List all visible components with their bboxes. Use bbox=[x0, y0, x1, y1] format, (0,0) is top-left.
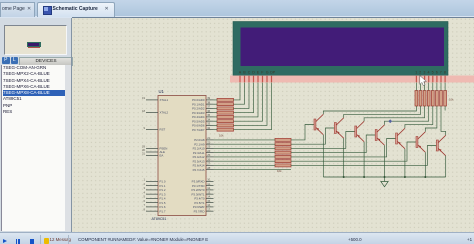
wire collector common bus bbox=[323, 176, 445, 178]
svg-text:17: 17 bbox=[207, 207, 210, 211]
transistor Q1 PNP bbox=[314, 114, 323, 134]
resistor R13 (P2.4 base resistor) bbox=[275, 155, 291, 158]
wire P2.0 to R9 to Q1 base bbox=[214, 125, 315, 140]
status bar bbox=[0, 232, 474, 244]
wire Q6 emitter to R21 (digit 6) bbox=[425, 106, 437, 132]
wire P0.6 to R7 to display segment G bbox=[214, 83, 268, 126]
wire Q7 emitter to R22 (digit 7) bbox=[441, 106, 446, 135]
L button bbox=[11, 57, 19, 64]
svg-text:24: 24 bbox=[207, 149, 210, 153]
svg-text:27: 27 bbox=[207, 162, 210, 166]
resistor R5 (P0.4 segment line) bbox=[217, 115, 234, 118]
wire display digit 3 to R18 bbox=[424, 83, 426, 91]
resistor R2 (P0.1 segment line) bbox=[217, 103, 234, 106]
message warning icon bbox=[44, 238, 49, 244]
wire P2.5 to R14 to Q6 base bbox=[214, 142, 417, 161]
display DS1 7SEG-MPX8-CA-BLUE bbox=[233, 22, 448, 76]
transistor Q4 PNP bbox=[375, 125, 384, 145]
svg-text:33: 33 bbox=[207, 122, 210, 126]
panel/canvas divider bbox=[71, 18, 72, 232]
wire display digit 1 to R16 bbox=[415, 83, 417, 91]
resistor R16 (digit 1 line) bbox=[415, 91, 418, 107]
pause button bbox=[16, 239, 17, 244]
DEVICES header bbox=[19, 57, 73, 66]
svg-text:U1: U1 bbox=[159, 89, 165, 94]
svg-text:36: 36 bbox=[207, 109, 210, 113]
wire P0.0 to R1 to display segment A bbox=[214, 83, 241, 100]
display digit pin stubs (red, tagged) bbox=[416, 76, 446, 82]
wire Q4 collector to common bus bbox=[384, 145, 386, 177]
wire Q4 emitter to R19 (digit 4) bbox=[385, 106, 429, 125]
svg-text:21: 21 bbox=[207, 136, 210, 140]
play button bbox=[3, 239, 7, 243]
svg-text:15: 15 bbox=[207, 199, 210, 203]
svg-text:RST: RST bbox=[160, 128, 166, 132]
wire P0.7 to R8 to display segment DP bbox=[214, 83, 272, 130]
status message bbox=[78, 237, 208, 242]
svg-text:P0.7/AD7: P0.7/AD7 bbox=[192, 128, 205, 132]
wire P0.5 to R6 to display segment F bbox=[214, 83, 263, 122]
transistor Q5 PNP bbox=[396, 128, 405, 148]
list scrollbar bbox=[65, 65, 72, 231]
svg-text:1: 1 bbox=[415, 70, 417, 74]
svg-text:D: D bbox=[252, 70, 255, 74]
U1 left pin stubs and numbers bbox=[142, 96, 169, 213]
junction dot Q4 collector bbox=[384, 176, 386, 178]
svg-text:6: 6 bbox=[436, 70, 438, 74]
svg-text:35: 35 bbox=[207, 113, 210, 117]
wire P2.4 to R13 to Q5 base bbox=[214, 139, 396, 157]
wire display digit 5 to R20 bbox=[432, 83, 434, 91]
wire Q3 collector to common bus bbox=[363, 142, 365, 177]
wire P2.7 stub bbox=[214, 169, 292, 171]
tab bar bbox=[0, 0, 474, 16]
wire display digit 8 to R23 bbox=[444, 83, 446, 91]
wire P0.1 to R2 to display segment B bbox=[214, 83, 245, 105]
resistor R17 (digit 2 line) bbox=[419, 91, 422, 107]
coordinates bbox=[348, 237, 362, 242]
ground bbox=[381, 177, 388, 187]
resistor R19 (digit 4 line) bbox=[427, 91, 430, 107]
transistor Q3 PNP bbox=[355, 121, 364, 141]
junction dot Q6 collector bbox=[424, 176, 426, 178]
mouse cursor bbox=[420, 76, 427, 86]
wire P2.1 to R10 to Q2 base bbox=[214, 128, 335, 144]
svg-text:22: 22 bbox=[207, 140, 210, 144]
wire Q3 emitter to R18 (digit 3) bbox=[364, 106, 425, 121]
canvas top border bbox=[72, 16, 474, 19]
svg-text:5: 5 bbox=[432, 70, 434, 74]
resistor R6 (P0.5 segment line) bbox=[217, 120, 234, 123]
preview window bbox=[4, 25, 67, 55]
resistor R11 (P2.2 base resistor) bbox=[275, 147, 291, 150]
resistor R10 (P2.1 base resistor) bbox=[275, 143, 291, 146]
svg-text:26: 26 bbox=[207, 157, 210, 161]
svg-text:31: 31 bbox=[142, 152, 145, 156]
resistor R18 (digit 3 line) bbox=[423, 91, 426, 107]
wire Q7 collector to common bus bbox=[445, 156, 447, 177]
wire Q2 emitter to R17 (digit 2) bbox=[344, 106, 421, 118]
left panel bbox=[0, 18, 72, 232]
wire P0.4 to R5 to display segment E bbox=[214, 83, 259, 117]
stub below R23 bbox=[444, 106, 446, 111]
svg-text:XTAL1: XTAL1 bbox=[160, 98, 169, 102]
resistor R8 (P0.7 segment line) bbox=[217, 128, 234, 131]
svg-text:23: 23 bbox=[207, 145, 210, 149]
wire P2.2 to R11 to Q3 base bbox=[214, 132, 355, 149]
display digit pin name labels 12345678 bbox=[415, 70, 446, 74]
wire Q5 collector to common bus bbox=[404, 149, 406, 177]
transistor Q6 PNP bbox=[416, 132, 425, 152]
svg-text:13: 13 bbox=[207, 190, 210, 194]
wire Q6 collector to common bus bbox=[424, 152, 426, 177]
svg-text:7: 7 bbox=[440, 70, 442, 74]
svg-text:14: 14 bbox=[207, 195, 210, 199]
selection highlight band (tagged pin row) bbox=[230, 76, 474, 83]
svg-text:25: 25 bbox=[207, 153, 210, 157]
wire P0.2 to R3 to display segment C bbox=[214, 83, 250, 109]
resistor R20 (digit 5 line) bbox=[431, 91, 434, 107]
svg-text:XTAL2: XTAL2 bbox=[160, 111, 169, 115]
display segment pin name labels ABCDEFG DP bbox=[239, 70, 276, 74]
resistor R4 (P0.3 segment line) bbox=[217, 111, 234, 114]
wire display digit 4 to R19 bbox=[428, 83, 430, 91]
svg-text:29: 29 bbox=[142, 145, 145, 149]
svg-text:AT89C51: AT89C51 bbox=[152, 217, 167, 221]
device list bbox=[1, 65, 66, 231]
P button bbox=[2, 57, 10, 64]
svg-text:12: 12 bbox=[207, 186, 210, 190]
tab: Home Page (partial) bbox=[0, 2, 35, 17]
preview of selected device bbox=[27, 42, 41, 47]
resistor R21 (digit 6 line) bbox=[436, 91, 439, 107]
svg-text:G: G bbox=[266, 70, 269, 74]
junction dot Q2 collector bbox=[343, 176, 345, 178]
wire display digit 2 to R17 bbox=[420, 83, 422, 91]
transistor Q7 PNP bbox=[436, 135, 445, 155]
svg-text:P1.7: P1.7 bbox=[160, 209, 166, 213]
svg-text:4: 4 bbox=[428, 70, 430, 74]
svg-text:DP: DP bbox=[270, 70, 276, 74]
svg-text:34: 34 bbox=[207, 117, 210, 121]
resistor R14 (P2.5 base resistor) bbox=[275, 160, 291, 163]
resistor R22 (digit 7 line) bbox=[440, 91, 443, 107]
svg-text:2: 2 bbox=[419, 70, 421, 74]
svg-text:19: 19 bbox=[142, 96, 145, 100]
svg-text:37: 37 bbox=[207, 105, 210, 109]
svg-text:38: 38 bbox=[207, 100, 210, 104]
transistor Q2 PNP bbox=[334, 118, 343, 138]
resistor R9 (P2.0 base resistor) bbox=[275, 138, 291, 141]
tab: Schematic Capture (active) bbox=[37, 2, 115, 18]
resistor R15 (P2.6 base resistor) bbox=[275, 164, 291, 167]
wire P2.6 to R15 to Q7 base bbox=[214, 146, 437, 166]
svg-text:16: 16 bbox=[207, 203, 210, 207]
svg-text:10k: 10k bbox=[449, 98, 454, 102]
svg-text:28: 28 bbox=[207, 166, 210, 170]
wire Q1 collector to common bus bbox=[322, 135, 324, 177]
svg-text:C: C bbox=[248, 70, 251, 74]
microcontroller U1 AT89C51 bbox=[142, 89, 214, 221]
svg-text:EA: EA bbox=[160, 154, 164, 158]
resistor R1 (P0.0 segment line) bbox=[217, 98, 234, 101]
svg-text:18: 18 bbox=[142, 109, 145, 113]
wire display digit 6 to R21 bbox=[436, 83, 438, 91]
svg-text:8: 8 bbox=[444, 70, 446, 74]
svg-text:10: 10 bbox=[207, 178, 210, 182]
wire P2.3 to R12 to Q4 base bbox=[214, 135, 376, 153]
svg-text:P3.7/RD: P3.7/RD bbox=[194, 209, 205, 213]
wire display digit 7 to R22 bbox=[440, 83, 442, 91]
svg-text:39: 39 bbox=[207, 96, 210, 100]
resistor R3 (P0.2 segment line) bbox=[217, 107, 234, 110]
resistor R12 (P2.3 base resistor) bbox=[275, 151, 291, 154]
resistor R23 (digit 8 line) bbox=[444, 91, 447, 107]
svg-text:P2.7/A15: P2.7/A15 bbox=[193, 168, 205, 172]
svg-text:32: 32 bbox=[207, 126, 210, 130]
wire Q1 emitter to R16 (digit 1) bbox=[323, 106, 416, 114]
display segment pin stubs (red, tagged) bbox=[239, 76, 272, 82]
wire Q5 emitter to R20 (digit 5) bbox=[405, 106, 433, 128]
junction dot Q3 collector bbox=[363, 176, 365, 178]
stop button bbox=[30, 239, 35, 244]
wire Q2 collector to common bus bbox=[343, 138, 345, 177]
U1 right pin stubs and numbers bbox=[191, 96, 213, 213]
origin marker (blue diamond) bbox=[388, 119, 392, 123]
svg-text:30: 30 bbox=[142, 148, 145, 152]
svg-text:10k: 10k bbox=[219, 134, 224, 138]
svg-text:3: 3 bbox=[423, 70, 425, 74]
resistor R7 (P0.6 segment line) bbox=[217, 124, 234, 127]
junction dot Q5 collector bbox=[404, 176, 406, 178]
wire P0.3 to R4 to display segment D bbox=[214, 83, 254, 113]
